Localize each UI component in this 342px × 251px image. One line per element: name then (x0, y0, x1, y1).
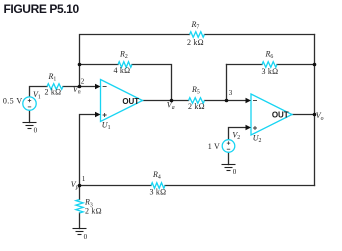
voltage source V2 (222, 140, 235, 153)
svg-text:R5: R5 (191, 85, 200, 96)
wire: U1 noninverting input from node 1 vertical (80, 115, 97, 186)
wire: V2 to ground (228, 152, 230, 164)
svg-text:2: 2 (81, 77, 85, 85)
resistor R1 2k (47, 84, 63, 90)
svg-text:0: 0 (84, 233, 88, 241)
op-amp U1 (101, 80, 143, 122)
resistor R2 4k (118, 62, 132, 68)
svg-text:1: 1 (82, 175, 86, 183)
svg-text:R6: R6 (265, 49, 274, 60)
svg-text:U1: U1 (102, 120, 111, 131)
svg-text:U2: U2 (253, 134, 262, 145)
arrowhead: U1 inverting input pin (95, 84, 101, 89)
svg-text:R1: R1 (48, 72, 57, 83)
wire: bottom rail R4 to Vo rail (165, 185, 315, 187)
wire: V2 to U2 noninverting input (229, 128, 248, 140)
ground (0) under R3 (73, 229, 87, 235)
resistor R4 3k (151, 183, 165, 189)
svg-text:3 kΩ: 3 kΩ (150, 188, 167, 197)
wire: R2 rail right segment + vertical down to Va (132, 65, 172, 101)
wire: V1 to R1 (30, 87, 48, 98)
wire: node 3 vertical up to R6 (226, 65, 228, 101)
svg-text:3 kΩ: 3 kΩ (262, 67, 279, 76)
svg-text:OUT: OUT (272, 111, 289, 120)
resistor R7 2k (190, 32, 205, 38)
wire: top rail (R7 feedback) right segment (205, 34, 315, 36)
wire: V1 to ground (29, 110, 31, 122)
svg-text:2 kΩ: 2 kΩ (45, 88, 62, 97)
svg-text:OUT: OUT (122, 97, 139, 106)
svg-text:2 kΩ: 2 kΩ (85, 207, 102, 216)
svg-text:Vo: Vo (316, 111, 324, 122)
svg-text:1 V: 1 V (208, 142, 220, 151)
junction: node 3 (225, 99, 229, 103)
svg-text:V1: V1 (33, 90, 41, 101)
wire: U1 output to R5 (node Va) (143, 100, 189, 102)
wire: top rail (R7 feedback) left segment (80, 35, 190, 87)
svg-text:0: 0 (34, 126, 38, 134)
junction: node Vo (313, 113, 317, 117)
wire: R6 rail right segment (277, 64, 315, 66)
svg-text:0: 0 (233, 168, 237, 176)
svg-text:R4: R4 (152, 170, 161, 181)
junction: node 1 (Vp) (78, 184, 82, 188)
arrowhead: U2 noninverting input pin (246, 125, 252, 130)
ground (0) under V1 (23, 123, 37, 129)
wire: R6 rail left segment (227, 64, 263, 66)
svg-text:Va: Va (167, 101, 175, 112)
wire: R2 rail left segment (80, 64, 119, 66)
wire: R3 to ground (79, 213, 81, 229)
svg-text:2 kΩ: 2 kΩ (187, 38, 204, 47)
svg-text:FIGURE P5.10: FIGURE P5.10 (4, 2, 80, 16)
resistor R6 3k (262, 62, 277, 68)
voltage source V1 (23, 97, 36, 110)
junction: node 2 (Vn) (78, 85, 82, 89)
arrowhead: U1 noninverting input pin (95, 112, 101, 117)
svg-text:Vp: Vp (71, 180, 79, 191)
wire: R5 to U2 inverting input (node 3) (205, 100, 248, 102)
svg-text:V2: V2 (232, 130, 240, 141)
junction: node Va (170, 99, 174, 103)
svg-text:R7: R7 (191, 20, 200, 31)
junction: R2 tap on left vertical (78, 63, 82, 67)
wire: bottom rail node1 to R4 (80, 185, 152, 187)
resistor R5 2k (189, 98, 205, 104)
svg-text:3: 3 (229, 89, 233, 97)
ground (0) under V2 (222, 165, 236, 171)
svg-text:4 kΩ: 4 kΩ (114, 66, 131, 75)
wire: node1 to R3 (79, 186, 81, 200)
svg-text:0.5 V: 0.5 V (3, 97, 23, 106)
wire: right vertical (Vo rail) (314, 35, 316, 186)
arrowhead: U2 inverting input pin (246, 98, 252, 103)
resistor R3 2k (vertical) (76, 200, 83, 214)
svg-text:2 kΩ: 2 kΩ (188, 102, 205, 111)
junction: R6 to Vo rail (313, 63, 317, 67)
wire: U2 output to Vo (292, 114, 315, 116)
svg-text:R2: R2 (119, 50, 128, 61)
wire: R1 to U1 inverting input (node 2) (63, 86, 97, 88)
op-amp U2 (251, 94, 292, 135)
